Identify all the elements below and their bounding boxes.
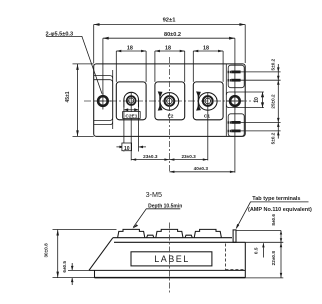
left column separator [112,70,114,129]
terminal C2E1 ring [127,96,136,105]
svg-text:E2: E2 [168,113,174,119]
svg-text:5±0.2: 5±0.2 [271,58,276,70]
case left slope [89,238,113,271]
hidden pocket dashed [225,244,243,270]
terminal C1 oval [199,93,218,111]
svg-text:30±0.8: 30±0.8 [44,243,49,258]
aux tab G2 [231,71,240,74]
svg-text:10: 10 [254,97,260,103]
terminal C2E1 tab arch [124,92,139,107]
dim 6 side [62,261,89,285]
terminal C1 crosshair [207,93,209,110]
svg-text:18: 18 [203,45,209,51]
svg-text:22±0.8: 22±0.8 [271,251,276,266]
dim 10 right hole [245,92,264,108]
svg-text:40±0.3: 40±0.3 [194,166,209,171]
extension line C2E1 center [130,118,132,160]
dim 92 [94,18,246,63]
terminal C1 ring [203,96,213,106]
dim 18 x3 [116,45,223,82]
terminal pad C2E1 [116,82,146,120]
side centerline [168,223,170,295]
dim 22 side [245,242,283,278]
svg-text:23±0.3: 23±0.3 [181,154,196,159]
terminal E2 ring [165,96,175,106]
case right edge [244,242,246,277]
svg-text:8±0.6: 8±0.6 [271,214,276,226]
right dims 5/25/5 [271,58,280,144]
aux tab G1 [231,130,240,133]
ridge 1 [147,235,154,238]
baseplate ledge [89,269,245,271]
note 2-phi5.5 [46,32,103,94]
svg-text:45±1: 45±1 [65,91,71,102]
left boss upper step line [94,76,113,79]
aux tab leaders [240,72,280,131]
terminal E2 oval [160,93,179,111]
module body outline [94,64,246,136]
aux tab E1 [231,121,240,124]
svg-text:C1: C1 [204,113,210,119]
mounting hole left [94,93,111,110]
baseplate bottom [95,277,246,279]
svg-text:Tab type terminals: Tab type terminals [252,196,300,202]
extension line C1 center [207,109,209,160]
dim 10 tab width [116,108,146,152]
terminal C2E1 width arrows [125,109,139,111]
aux block top [228,65,244,88]
dim 80 [103,32,235,94]
svg-text:LABEL: LABEL [154,254,190,264]
svg-text:18: 18 [127,45,133,51]
dim 0.5 side [254,243,265,258]
note tab type terminals [236,196,312,229]
svg-text:5±0.2: 5±0.2 [271,132,276,144]
terminal pad C1 [193,82,223,120]
svg-text:10: 10 [124,146,130,152]
terminal pad E2 [155,82,185,120]
chain line E2 center [168,57,170,172]
svg-text:25±0.2: 25±0.2 [271,94,276,109]
svg-text:92±1: 92±1 [163,18,177,24]
aux tab E2 [231,79,240,82]
svg-text:(AMP No.110 equivalent): (AMP No.110 equivalent) [248,207,312,213]
aux block bottom [228,114,244,137]
svg-text:0.5: 0.5 [254,247,259,254]
svg-text:23±0.3: 23±0.3 [143,154,158,159]
dim 8 side [236,214,283,243]
terminal C2E1 crosshair [130,93,132,112]
case top face [113,237,232,239]
dim 45 left [65,64,94,136]
right column separator [225,64,227,136]
horizontal centerline [84,100,256,102]
bump 1 [118,229,145,237]
extension line right hole center [234,109,236,173]
label C2E1 box [123,112,141,119]
terminal E2 crosshair [168,93,170,110]
note 3-M5 [132,190,182,229]
svg-text:18: 18 [165,45,171,51]
dim 40 [169,166,235,173]
tab terminal side [233,230,236,242]
LABEL box [131,252,212,266]
svg-text:6±0.5: 6±0.5 [62,261,67,273]
svg-text:3-M5: 3-M5 [146,190,162,199]
mounting hole right [226,93,243,110]
bump 3 [194,229,221,237]
bump 2 [156,229,183,237]
terminal E2 clamp [158,91,163,97]
case rim line [114,241,245,243]
dim 23 x2 [131,154,208,161]
baseplate left edge [94,270,96,277]
left boss lower step line [94,122,113,125]
ridge 2 [185,235,192,238]
svg-text:80±0.2: 80±0.2 [164,32,181,38]
dim 30 side [44,230,117,278]
terminal C1 clamp [196,91,201,97]
left boss panel [94,80,113,121]
right hole boss [226,92,245,108]
